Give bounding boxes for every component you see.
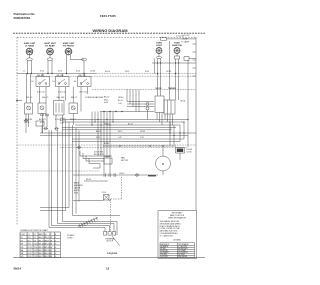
bus labels right bbox=[105, 71, 171, 73]
svg-text:V-31: V-31 bbox=[40, 122, 44, 124]
svg-text:3-RQ5/325: 3-RQ5/325 bbox=[107, 253, 118, 255]
svg-text:SEL. SW.: SEL. SW. bbox=[57, 97, 66, 99]
page number text bbox=[106, 267, 110, 271]
node dots on bus bbox=[27, 73, 176, 74]
oven light OL2 bbox=[172, 43, 183, 60]
node junction J0 bbox=[24, 114, 28, 133]
ground wire bbox=[112, 236, 120, 246]
svg-text:H1: H1 bbox=[53, 81, 55, 83]
svg-text:W: W bbox=[50, 240, 52, 242]
wire lamp switch feed bbox=[169, 41, 171, 100]
convection fan motor M1 bbox=[121, 146, 171, 175]
wire elbows into clock bbox=[127, 90, 154, 112]
svg-text:BR-8: BR-8 bbox=[44, 240, 48, 242]
label row below lights bbox=[24, 118, 77, 125]
svg-text:W: W bbox=[50, 250, 52, 252]
svg-text:BK-44: BK-44 bbox=[181, 101, 186, 103]
wire oven top bus bbox=[103, 145, 176, 146]
wire S3 drops bbox=[73, 74, 87, 112]
wire bake element lead bbox=[84, 179, 108, 181]
right border stubs bbox=[193, 44, 197, 76]
svg-text:BK-11: BK-11 bbox=[39, 244, 44, 246]
svg-text:CONSOLE FAR SIDE: CONSOLE FAR SIDE bbox=[85, 96, 104, 99]
svg-text:5M14: 5M14 bbox=[14, 267, 22, 271]
svg-text:BK-15: BK-15 bbox=[39, 247, 44, 249]
wire elbow to terminal 4 bbox=[63, 222, 118, 232]
hi-limit thermostat S6 bbox=[73, 192, 111, 200]
oven section right border bbox=[195, 37, 197, 210]
svg-text:FEFL77AB: FEFL77AB bbox=[100, 14, 116, 18]
svg-text:Y-10: Y-10 bbox=[33, 244, 37, 246]
oven light OL1 bbox=[156, 43, 163, 59]
resistor R1 top right bbox=[161, 35, 197, 43]
svg-text:R-13: R-13 bbox=[28, 247, 32, 249]
oven cavity dashed border bbox=[111, 177, 122, 232]
connector P1 below light bbox=[40, 114, 49, 116]
relay K1 bbox=[93, 155, 112, 168]
wire elbow to terminal 1 bbox=[49, 228, 105, 232]
surface unit SU3 (right front) bbox=[63, 43, 75, 55]
infinite switch S2 bbox=[56, 75, 70, 87]
indicator light DS3 bbox=[69, 103, 78, 114]
node dots harness right bbox=[169, 119, 188, 136]
svg-text:BK-14 W-15: BK-14 W-15 bbox=[94, 154, 104, 156]
svg-text:R-17: R-17 bbox=[28, 250, 32, 252]
title underline rule bbox=[13, 32, 205, 34]
svg-text:MOTOR: MOTOR bbox=[121, 160, 129, 162]
svg-text:Y-42: Y-42 bbox=[118, 103, 122, 105]
svg-text:BR-16: BR-16 bbox=[44, 247, 49, 249]
node junction J1 bbox=[44, 127, 49, 130]
node junction J2 bbox=[54, 127, 59, 130]
svg-text:Y-22: Y-22 bbox=[33, 253, 37, 255]
clock/timer U1 bbox=[155, 88, 164, 113]
svg-text:OR-40: OR-40 bbox=[118, 97, 123, 99]
svg-text:H1: H1 bbox=[32, 81, 34, 83]
infinite switch S1 bbox=[36, 75, 50, 87]
svg-text:W: W bbox=[50, 247, 52, 249]
svg-text:BK-23: BK-23 bbox=[39, 253, 44, 255]
wire S1 drops bbox=[40, 74, 47, 104]
svg-text:V-31: V-31 bbox=[140, 137, 144, 139]
wire dotted below switches bbox=[92, 89, 196, 91]
svg-text:T.O.D.: T.O.D. bbox=[102, 192, 108, 194]
svg-text:BK-3: BK-3 bbox=[39, 237, 43, 239]
terminal block TB1 bbox=[104, 232, 118, 243]
clock timer labels bbox=[104, 97, 109, 105]
wire console bus with dots bbox=[100, 111, 154, 112]
svg-text:LAMP SW.: LAMP SW. bbox=[172, 44, 183, 47]
wire lamp feed bbox=[152, 59, 196, 74]
publication number text bbox=[14, 12, 36, 20]
svg-text:R-33: R-33 bbox=[74, 193, 78, 195]
svg-text:SIG. LT.: SIG. LT. bbox=[26, 97, 33, 99]
svg-text:R-10 Y-12: R-10 Y-12 bbox=[58, 92, 66, 94]
svg-text:P 12 2V: P 12 2V bbox=[183, 35, 190, 37]
harness ribbon wires bbox=[17, 120, 196, 148]
svg-text:70 - LATEST ED.: 70 - LATEST ED. bbox=[160, 234, 174, 237]
svg-text:INF. SW.: INF. SW. bbox=[37, 75, 45, 77]
svg-text:W: W bbox=[50, 253, 52, 255]
svg-text:RELAY: RELAY bbox=[105, 155, 112, 158]
svg-text:BK-14: BK-14 bbox=[105, 71, 110, 73]
svg-text:THERMO: THERMO bbox=[168, 88, 176, 90]
svg-text:12: 12 bbox=[106, 267, 110, 271]
svg-text:OR-40: OR-40 bbox=[104, 123, 109, 125]
svg-text:RT. REAR: RT. REAR bbox=[45, 44, 55, 47]
svg-text:W: W bbox=[50, 244, 52, 246]
svg-text:LOCK: LOCK bbox=[187, 151, 193, 153]
svg-text:LEGEND: LEGEND bbox=[173, 240, 181, 242]
svg-text:W-15: W-15 bbox=[104, 99, 108, 101]
svg-text:RT. FRONT: RT. FRONT bbox=[63, 45, 75, 47]
wire bus L1 bbox=[17, 71, 196, 74]
svg-text:WIRING DIAGRAM: WIRING DIAGRAM bbox=[92, 28, 128, 33]
wire SU1 to bus bbox=[28, 55, 32, 74]
svg-text:BK-14: BK-14 bbox=[96, 131, 101, 133]
selector switch S4 bbox=[54, 101, 65, 116]
svg-text:SURFACE UNIT SWITCH CHART: SURFACE UNIT SWITCH CHART bbox=[21, 229, 49, 232]
bake element labels bbox=[74, 182, 84, 195]
svg-text:BK-14 R: BK-14 R bbox=[39, 119, 46, 121]
svg-text:Y-42: Y-42 bbox=[118, 137, 122, 139]
svg-text:Y-14: Y-14 bbox=[33, 247, 37, 249]
connector P2 bbox=[36, 121, 44, 133]
door switch labels bbox=[94, 152, 104, 157]
wire lower oven bus bbox=[17, 171, 158, 175]
svg-text:R-20: R-20 bbox=[145, 71, 149, 73]
footer rule bbox=[13, 257, 205, 259]
indicator light DS1 bbox=[25, 103, 33, 114]
wire lower elbows left bbox=[40, 208, 69, 211]
svg-text:CORD: CORD bbox=[67, 237, 73, 239]
part number text bbox=[107, 253, 118, 255]
connector P3 bbox=[81, 58, 86, 73]
wire right side drops bbox=[170, 122, 184, 145]
power cord W1 bbox=[67, 217, 98, 240]
receptacle J4 bbox=[184, 57, 196, 61]
svg-text:Y-42: Y-42 bbox=[60, 123, 64, 125]
svg-text:GY-30: GY-30 bbox=[166, 71, 171, 73]
svg-text:TO LAMP: TO LAMP bbox=[181, 41, 190, 44]
harness wire labels bbox=[96, 123, 145, 145]
svg-text:Y-18: Y-18 bbox=[33, 250, 37, 252]
svg-text:LT. REAR: LT. REAR bbox=[25, 44, 35, 47]
infinite switch S3 bbox=[78, 75, 92, 87]
svg-text:BLOCK: BLOCK bbox=[107, 241, 114, 243]
svg-text:BR-20: BR-20 bbox=[44, 250, 49, 252]
svg-text:BR-4: BR-4 bbox=[44, 237, 48, 239]
oven thermostat U2 bbox=[164, 88, 185, 114]
svg-text:INF. SW.: INF. SW. bbox=[79, 75, 87, 77]
svg-text:BR-34: BR-34 bbox=[104, 143, 109, 145]
wire comb console to harness bbox=[91, 112, 113, 126]
legend code table bbox=[160, 243, 195, 258]
svg-text:5995367081: 5995367081 bbox=[14, 16, 31, 20]
svg-text:Y-2: Y-2 bbox=[33, 237, 36, 239]
svg-text:W-15: W-15 bbox=[118, 131, 122, 133]
wire SU3 elbow to connector bbox=[67, 55, 85, 74]
svg-text:L1: L1 bbox=[28, 234, 30, 236]
svg-text:BL-41: BL-41 bbox=[118, 100, 123, 102]
node junction J5 bbox=[77, 146, 81, 149]
wire bus L2 dotted bbox=[30, 75, 196, 77]
svg-text:MED: MED bbox=[39, 234, 44, 236]
inner right vertical wire bbox=[187, 60, 189, 147]
node on left border bbox=[16, 100, 22, 102]
surface unit SU1 (left front) bbox=[24, 43, 36, 61]
connector plug P4 bbox=[104, 173, 124, 177]
svg-text:INF. SW.: INF. SW. bbox=[57, 75, 65, 77]
console dashed border top bbox=[17, 36, 196, 38]
svg-text:R-21: R-21 bbox=[28, 253, 32, 255]
svg-text:R-5: R-5 bbox=[28, 240, 31, 242]
switch side labels bbox=[32, 81, 88, 94]
svg-text:Y-6: Y-6 bbox=[33, 240, 36, 242]
label row console components bbox=[26, 96, 104, 99]
svg-text:WIRE INFORMATION: WIRE INFORMATION bbox=[168, 216, 186, 219]
title WIRING DIAGRAM bbox=[92, 28, 128, 33]
svg-text:W-15: W-15 bbox=[125, 71, 129, 73]
svg-text:BL-41: BL-41 bbox=[128, 123, 133, 125]
wire comb below clock bbox=[157, 113, 173, 134]
door lock switch S5 bbox=[176, 148, 193, 161]
note text under rule bbox=[176, 36, 184, 38]
wire color table bbox=[20, 229, 61, 258]
svg-text:CLOCK: CLOCK bbox=[155, 88, 162, 90]
wire elbow to terminal 3 bbox=[58, 224, 115, 232]
fuse link F1 bbox=[148, 175, 156, 177]
console dashed border left bbox=[16, 37, 18, 225]
svg-text:BR-24: BR-24 bbox=[44, 253, 49, 255]
wire drops console to oven center bbox=[98, 120, 110, 174]
svg-text:BK-7: BK-7 bbox=[39, 240, 43, 242]
svg-text:H1: H1 bbox=[74, 81, 76, 83]
svg-text:GY-30: GY-30 bbox=[140, 131, 145, 133]
svg-text:R-10: R-10 bbox=[40, 71, 44, 73]
svg-text:R-10 Y-12: R-10 Y-12 bbox=[37, 92, 45, 94]
svg-text:R-10: R-10 bbox=[58, 71, 62, 73]
wire drop columns to oven bbox=[43, 114, 80, 228]
svg-text:R-20: R-20 bbox=[104, 102, 108, 104]
svg-text:R-1: R-1 bbox=[28, 237, 31, 239]
buzzer BZ1 bbox=[146, 103, 149, 120]
model number text bbox=[100, 14, 116, 18]
svg-text:L1 BK: L1 BK bbox=[90, 71, 96, 73]
wire SU2 to bus bbox=[48, 55, 52, 74]
svg-text:SIG. LT.: SIG. LT. bbox=[71, 97, 78, 99]
wire OL1 down bbox=[158, 54, 161, 97]
svg-text:LIGHT: LIGHT bbox=[156, 45, 163, 47]
svg-text:BR-34: BR-34 bbox=[86, 179, 91, 181]
indicator light DS2 bbox=[38, 103, 46, 114]
wire elbow to terminal 2 bbox=[52, 226, 110, 232]
wire S2 drops bbox=[59, 74, 66, 101]
svg-text:OR-40: OR-40 bbox=[119, 173, 124, 175]
svg-text:BR-12: BR-12 bbox=[44, 244, 49, 246]
svg-text:R-10 Y-12: R-10 Y-12 bbox=[80, 92, 88, 94]
svg-text:L1: L1 bbox=[23, 71, 25, 73]
svg-text:BK-14: BK-14 bbox=[104, 97, 109, 99]
latch wire labels bbox=[118, 97, 123, 105]
svg-text:SIG. LT.: SIG. LT. bbox=[42, 97, 49, 99]
node junction J3 bbox=[135, 174, 139, 177]
footer code text bbox=[14, 267, 22, 271]
surface unit SU2 (left rear) bbox=[44, 43, 56, 61]
svg-text:BK-19: BK-19 bbox=[39, 250, 44, 252]
svg-text:R-10: R-10 bbox=[76, 71, 80, 73]
wire OL2 down bbox=[176, 54, 179, 101]
wire elbow bundle to relay bbox=[80, 151, 112, 164]
svg-text:M: M bbox=[162, 162, 164, 166]
svg-text:W: W bbox=[50, 237, 52, 239]
legend note box bbox=[158, 211, 197, 259]
wire drop 5 bbox=[73, 215, 121, 217]
wire signal light leads bbox=[27, 74, 74, 128]
svg-text:R-9: R-9 bbox=[28, 244, 31, 246]
